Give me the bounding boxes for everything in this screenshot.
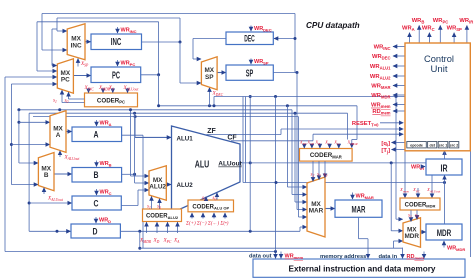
svg-text:CODERALU OP: CODERALU OP [192, 204, 229, 210]
svg-text:WRmem: WRmem [285, 254, 304, 261]
svg-text:CF: CF [227, 134, 237, 141]
svg-text:WRMAR: WRMAR [356, 194, 374, 201]
svg-text:PC: PC [61, 77, 70, 84]
svg-text:opcode: opcode [410, 143, 423, 147]
svg-text:A: A [56, 132, 61, 139]
svg-text:MDR: MDR [404, 233, 419, 240]
svg-text:data out: data out [249, 254, 272, 260]
svg-text:[qi]: [qi] [381, 141, 390, 148]
svg-text:s1: s1 [147, 205, 151, 211]
svg-text:dst: dst [430, 143, 436, 147]
svg-text:DEC: DEC [244, 34, 255, 44]
svg-text:src 1: src 1 [439, 143, 447, 147]
svg-text:ALUout: ALUout [218, 161, 242, 168]
svg-text:WRMDR: WRMDR [371, 93, 390, 100]
svg-text:WRDEC: WRDEC [372, 54, 391, 61]
svg-text:Σ(+) Σ(−) Σ(←) Σ(•): Σ(+) Σ(−) Σ(←) Σ(•) [185, 222, 229, 227]
svg-text:B: B [44, 172, 49, 179]
svg-text:B: B [94, 170, 99, 181]
svg-text:s0: s0 [157, 205, 161, 211]
svg-text:WRB: WRB [100, 161, 112, 168]
svg-text:A: A [94, 130, 99, 141]
svg-text:WRALU2: WRALU2 [370, 74, 391, 81]
svg-text:WRC: WRC [100, 190, 112, 197]
svg-text:CPU datapath: CPU datapath [306, 21, 360, 30]
svg-text:WRA: WRA [402, 25, 415, 32]
svg-text:ALU: ALU [195, 160, 210, 171]
svg-text:WRPC: WRPC [121, 61, 136, 68]
svg-text:WRPC: WRPC [433, 18, 449, 25]
svg-text:RDmem: RDmem [407, 254, 425, 261]
svg-text:MAR: MAR [352, 204, 366, 215]
svg-text:CODERMDR: CODERMDR [405, 202, 436, 208]
svg-text:CODERALU2: CODERALU2 [146, 214, 179, 220]
svg-text:ALU2: ALU2 [177, 182, 194, 189]
svg-text:SP: SP [246, 68, 254, 79]
svg-text:C: C [94, 198, 99, 209]
svg-text:WRINC: WRINC [121, 28, 137, 35]
svg-text:INC: INC [111, 37, 122, 48]
svg-text:WRIR: WRIR [411, 165, 424, 172]
svg-text:Control: Control [424, 54, 454, 64]
svg-text:MAR: MAR [309, 208, 324, 215]
svg-text:s0: s0 [213, 196, 217, 202]
svg-text:Unit: Unit [431, 64, 449, 74]
svg-text:s1: s1 [408, 214, 412, 220]
svg-text:s1: s1 [202, 196, 206, 202]
svg-text:ALU2: ALU2 [149, 184, 166, 191]
svg-text:RESETT=0: RESETT=0 [352, 121, 379, 128]
svg-text:WRSP: WRSP [447, 25, 462, 32]
svg-text:SP: SP [205, 74, 214, 81]
svg-text:WRD: WRD [99, 218, 111, 225]
svg-text:s2: s2 [311, 173, 315, 179]
svg-text:WRB: WRB [412, 18, 425, 25]
svg-text:RDmem: RDmem [372, 109, 390, 116]
svg-text:IR: IR [441, 163, 448, 174]
svg-text:WRA: WRA [100, 121, 112, 128]
svg-text:ZF: ZF [207, 128, 216, 135]
svg-text:WRMAR: WRMAR [371, 84, 390, 91]
svg-text:PC: PC [112, 70, 120, 81]
svg-text:External instruction and data: External instruction and data memory [289, 264, 436, 273]
svg-text:WRSP: WRSP [254, 59, 269, 66]
svg-text:data in: data in [379, 254, 398, 260]
svg-text:[Tj]: [Tj] [381, 148, 390, 155]
svg-text:WRDEC: WRDEC [254, 26, 272, 33]
svg-text:s0: s0 [415, 214, 419, 220]
svg-text:s1: s1 [317, 173, 321, 179]
svg-text:src 2: src 2 [450, 143, 458, 147]
svg-text:WRMDR: WRMDR [447, 246, 465, 253]
svg-text:memory address: memory address [320, 254, 366, 260]
svg-text:ALU1: ALU1 [177, 136, 194, 143]
svg-text:MDR: MDR [437, 228, 452, 239]
svg-text:s0: s0 [324, 173, 328, 179]
svg-text:WRC: WRC [422, 25, 435, 32]
svg-text:WRINC: WRINC [374, 45, 391, 52]
svg-text:WRALU1: WRALU1 [370, 64, 391, 71]
svg-text:INC: INC [71, 42, 82, 49]
svg-text:D: D [93, 226, 98, 237]
svg-text:WRIR: WRIR [459, 18, 473, 25]
